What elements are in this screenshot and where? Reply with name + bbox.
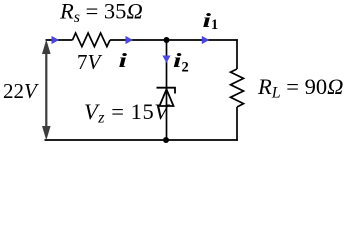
current arrow i2 (162, 56, 170, 64)
wire top-left segment (46, 39, 73, 41)
current arrow i (126, 36, 134, 44)
svg-text:i: i (119, 50, 128, 72)
svg-text:Rs = 35Ω: Rs = 35Ω (59, 0, 143, 26)
svg-text:7V: 7V (77, 50, 103, 74)
wire top-right segment (167, 39, 238, 41)
wire middle branch (166, 40, 168, 140)
svg-text:22V: 22V (3, 79, 39, 103)
wire top-middle segment (110, 39, 167, 41)
svg-text:RL = 90Ω: RL = 90Ω (257, 74, 343, 102)
wire right-top segment (236, 39, 238, 69)
wire right-bottom segment (236, 107, 238, 141)
zener diode D1 cathode bar (157, 88, 176, 94)
resistor Rs zigzag (73, 33, 111, 47)
zener diode D1 triangle (160, 89, 174, 106)
voltage arrow 22V (gray double arrow) (42, 40, 51, 141)
current arrow i1 (202, 36, 210, 44)
wire bottom segment (45, 139, 238, 141)
node top junction (164, 37, 170, 43)
node bottom junction (163, 137, 169, 143)
resistor RL zigzag (231, 69, 244, 107)
svg-text:Vz = 15V: Vz = 15V (84, 99, 170, 127)
current arrow after source (52, 36, 60, 44)
